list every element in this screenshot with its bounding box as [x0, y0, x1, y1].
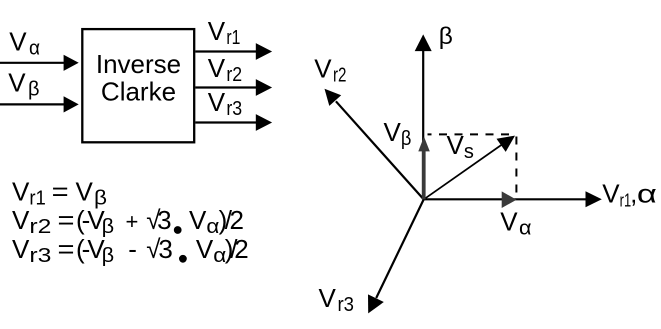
axis Vr3 — [376, 199, 424, 298]
svg-text:-: - — [128, 234, 137, 264]
svg-text:=: = — [58, 205, 75, 235]
svg-text:Inverse: Inverse — [96, 49, 181, 79]
wire output Vr2 — [195, 86, 256, 88]
svg-text:)/2: )/2 — [219, 205, 244, 235]
svg-text:√3: √3 — [146, 205, 171, 235]
svg-text:Clarke: Clarke — [101, 77, 176, 107]
svg-text:+: + — [126, 209, 139, 234]
svg-text:√3: √3 — [146, 234, 172, 264]
vector Vbeta gray — [422, 151, 426, 200]
vector Vs — [424, 145, 502, 200]
svg-text:=: = — [52, 176, 69, 206]
axis beta — [422, 50, 424, 199]
axis Vr1,alpha — [424, 198, 586, 200]
vector Valpha gray head — [502, 191, 517, 208]
dashed projection horizontal — [428, 133, 517, 135]
dashed projection vertical — [515, 137, 517, 194]
wire output Vr1 — [195, 50, 256, 52]
block U1 Inverse Clarke — [82, 29, 194, 142]
svg-text:)/2: )/2 — [225, 234, 248, 264]
svg-text:=: = — [58, 234, 75, 264]
svg-text:Vr1,α: Vr1,α — [602, 179, 657, 211]
wire input Valpha — [0, 62, 65, 64]
wire output Vr3 — [195, 121, 256, 123]
axis Vr2 — [336, 101, 424, 199]
wire input Vbeta — [0, 103, 65, 105]
svg-text:β: β — [439, 23, 453, 50]
